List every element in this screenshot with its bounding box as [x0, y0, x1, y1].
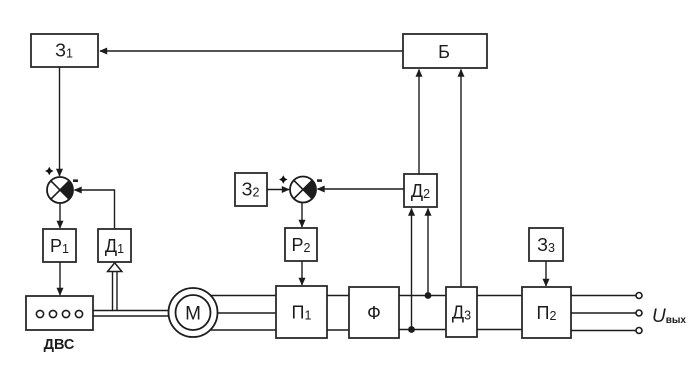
three wires М to П1 — [210, 295, 276, 297]
wire Д3 up to Б — [460, 70, 462, 288]
wire top line up to Д2 — [427, 209, 429, 296]
block Д2 — [404, 174, 437, 207]
block Ф — [349, 287, 399, 338]
block Д1 — [98, 229, 131, 262]
wire Р1 to ДВС — [59, 262, 61, 295]
wire З3 to П2 — [545, 261, 547, 286]
plus sign at S2 — [279, 175, 287, 183]
wire Д2 up to Б — [418, 70, 420, 175]
feedback wire Д1 to S1 — [75, 190, 115, 229]
block З1 — [31, 34, 98, 67]
wire Б to З1 — [100, 50, 403, 52]
output wire 1 with terminal — [571, 295, 636, 297]
wire З2 to S2 — [267, 189, 289, 191]
summing junction S2 — [290, 177, 316, 203]
block Б — [403, 34, 487, 68]
block Р2 — [285, 228, 317, 261]
svg-text:Б: Б — [438, 42, 450, 62]
wire S1 to Р1 — [59, 203, 61, 228]
output wire 2 with terminal — [571, 312, 636, 314]
wire З1 down to summing junction 1 — [59, 67, 61, 176]
svg-text:ДВС: ДВС — [44, 337, 75, 353]
wires Д3 to П2 — [477, 295, 522, 297]
block П1 — [276, 286, 327, 338]
svg-text:Ф: Ф — [367, 303, 381, 323]
double mechanical line up to Д1 with hollow arrow — [112, 271, 114, 311]
wires Ф to Д3 with junction dots — [399, 295, 446, 297]
block З3 — [529, 228, 563, 261]
motor М — [169, 288, 218, 337]
junction dot top line — [425, 292, 432, 299]
block П2 — [522, 287, 571, 338]
summing junction S1 — [47, 177, 73, 203]
double mechanical line ДВС to М — [93, 310, 170, 312]
wire Д2 to S2 — [318, 188, 405, 190]
block З2 — [235, 173, 267, 206]
minus sign at S1 — [73, 179, 78, 182]
wires П1 to Ф — [327, 295, 349, 297]
wire Р2 to П1 — [301, 261, 303, 285]
block Р1 — [43, 229, 76, 262]
plus sign at S1 — [45, 167, 53, 175]
minus sign at S2 — [317, 179, 322, 182]
output wire 3 with terminal — [571, 330, 636, 332]
junction dot bottom line — [408, 326, 415, 333]
block Д3 — [446, 287, 477, 337]
wire bottom line up to Д2 — [411, 209, 413, 330]
wire S2 to Р2 — [301, 203, 303, 228]
block ДВС — [26, 296, 93, 353]
svg-text:М: М — [185, 304, 201, 325]
